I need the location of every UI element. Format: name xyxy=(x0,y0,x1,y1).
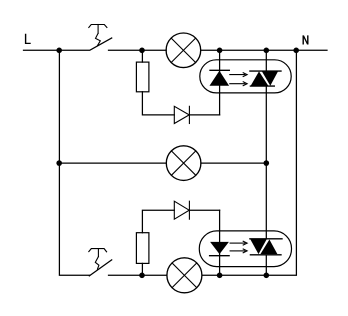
node L label xyxy=(25,34,31,44)
junction dot N terminal xyxy=(293,48,299,54)
indicator module U2 outline xyxy=(199,231,291,267)
node N label xyxy=(303,35,309,44)
wire diode D2 cathode to riser xyxy=(189,209,219,211)
junction dot x=266 net top xyxy=(264,48,270,54)
junction dot middle row right xyxy=(264,160,270,166)
indicator U1 back-to-back diode pair AV xyxy=(250,71,281,86)
junction dot U2 LED net bottom xyxy=(217,273,223,279)
switch S2 lever xyxy=(89,260,111,276)
switch S1 actuator stem xyxy=(97,25,99,34)
junction dot L bus top xyxy=(56,48,62,54)
wire lamp E1 to N terminal xyxy=(201,49,327,51)
indicator U1 LED pointing up xyxy=(210,70,230,85)
indicator U1 emission arrow lower xyxy=(230,82,247,86)
wire resistor R2 bottom stub xyxy=(141,263,143,275)
wire vertical net x=266 through both indicators xyxy=(265,50,267,275)
junction dot resistor R1 top xyxy=(139,48,145,54)
wire resistor R1 top stub xyxy=(141,50,143,62)
diode D2 xyxy=(174,201,189,219)
lamp E3 xyxy=(167,258,202,293)
wire right vertical from N junction down to bottom row xyxy=(202,50,296,275)
switch S2 actuator stem xyxy=(97,249,99,257)
wire top feed from L to switch S1 xyxy=(24,49,90,51)
wire switch S1 to lamp E1 xyxy=(109,49,167,51)
switch S1 lever xyxy=(90,38,111,50)
wire resistor R1 bottom to diode D1 anode xyxy=(142,92,174,115)
indicator U2 emission arrow lower xyxy=(230,249,247,253)
lamp E1 xyxy=(166,33,201,68)
junction dot U1 LED net top xyxy=(217,48,223,54)
indicator U2 emission arrow upper xyxy=(230,241,247,245)
switch S2 actuator hat xyxy=(89,249,107,252)
wire riser from diode D2 row down through indicator U2 LED to bottom junction xyxy=(219,210,221,275)
switch S1 actuator hat xyxy=(89,25,107,28)
junction dot resistor R2 bottom xyxy=(139,273,145,279)
wire middle row from bus to lamp E2 xyxy=(59,162,166,164)
indicator U2 back-to-back diode pair VA xyxy=(250,239,282,255)
lamp E2 xyxy=(166,146,201,181)
resistor R2 xyxy=(136,233,149,264)
resistor R1 xyxy=(136,62,149,92)
wire lamp E2 to vertical net at x=266 xyxy=(201,162,266,164)
indicator U1 emission arrow upper xyxy=(230,73,247,77)
indicator module U1 outline xyxy=(200,60,291,93)
wire left vertical bus from L junction down to bottom row xyxy=(59,50,89,275)
switch S1 spring zigzag xyxy=(96,33,101,45)
wire bottom row switch S2 to lamp E3 xyxy=(109,274,167,276)
wire diode D1 cathode to riser xyxy=(189,114,219,116)
diode D1 xyxy=(174,106,189,123)
wire vertical from top junction through indicator U1 LED to diode D1 xyxy=(219,50,221,115)
wire resistor R2 top to diode D2 anode xyxy=(142,210,174,233)
junction dot middle row left xyxy=(56,160,62,166)
switch S2 spring zigzag xyxy=(95,257,99,269)
junction dot x=266 net bottom xyxy=(264,273,270,279)
indicator U2 LED pointing down xyxy=(210,242,230,256)
